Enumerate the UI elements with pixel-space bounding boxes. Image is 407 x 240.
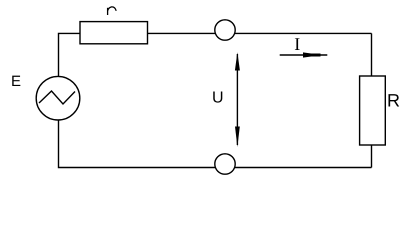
svg-text:R: R [387, 90, 400, 110]
svg-text:I: I [294, 34, 300, 54]
svg-text:E: E [11, 73, 21, 90]
svg-text:U: U [212, 89, 224, 106]
